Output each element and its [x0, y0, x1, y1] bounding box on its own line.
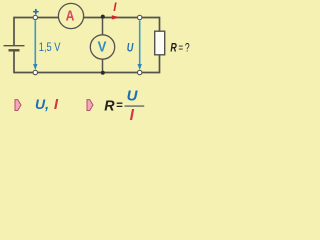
voltmeter U2 circle	[90, 35, 114, 59]
svg-text:U: U	[127, 41, 134, 55]
battery B1 positive plate	[4, 45, 25, 47]
node terminal open circle top left	[33, 15, 37, 19]
wire right vertical top (to resistor)	[159, 17, 161, 32]
voltage arrow U (right, blue)	[138, 21, 142, 71]
current arrowhead I (red, on top rail)	[112, 15, 121, 19]
wire top rail	[14, 17, 160, 19]
bullet arrow 1 (pink)	[15, 100, 21, 111]
resistor R	[155, 31, 165, 55]
svg-text:A: A	[66, 9, 75, 25]
wire voltmeter branch lower	[102, 58, 104, 73]
junction dot top (voltmeter tap)	[101, 15, 105, 19]
svg-text:U: U	[127, 87, 139, 104]
node terminal open circle bottom right	[138, 70, 142, 74]
battery B1 negative plate	[9, 49, 20, 51]
svg-text:V: V	[98, 39, 107, 55]
svg-text:R: R	[170, 42, 177, 54]
ammeter U1 circle	[58, 3, 83, 28]
wire left vertical (battery top lead)	[13, 17, 15, 45]
svg-text:R: R	[104, 98, 115, 114]
wire battery bottom lead	[13, 52, 15, 74]
formula fraction bar	[125, 105, 145, 107]
plus polarity mark	[33, 9, 39, 15]
bullet arrow 2 (pink)	[87, 100, 93, 111]
svg-text:1,5 V: 1,5 V	[39, 40, 61, 54]
wire voltmeter branch upper	[102, 18, 104, 37]
node terminal open circle top right	[138, 15, 142, 19]
svg-text:=: =	[116, 100, 123, 112]
svg-text:=: =	[178, 42, 183, 54]
svg-text:I: I	[130, 107, 135, 122]
wire bottom rail	[14, 72, 160, 74]
voltage arrow 1,5 V (left, blue)	[33, 21, 37, 71]
svg-text:U,: U,	[35, 96, 49, 112]
svg-text:?: ?	[185, 42, 190, 54]
wire right vertical bottom (from resistor)	[159, 54, 161, 73]
junction dot bottom (voltmeter tap)	[101, 71, 105, 75]
node terminal open circle bottom left	[33, 70, 37, 74]
